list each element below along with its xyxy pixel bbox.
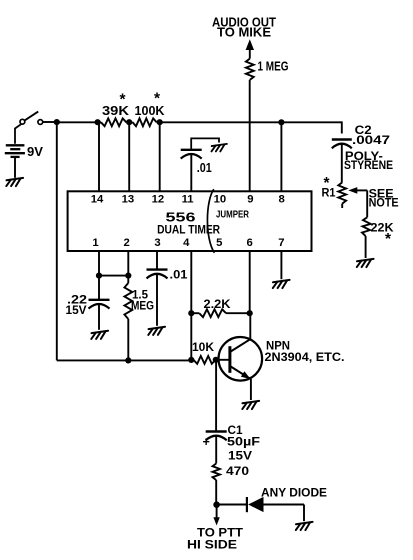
switch S1 <box>20 112 43 125</box>
wire PTT node to diode <box>217 504 247 506</box>
label 470 <box>226 464 249 478</box>
label .22 <box>67 292 87 306</box>
svg-text:1: 1 <box>92 237 98 249</box>
svg-text:8: 8 <box>278 193 284 205</box>
svg-text:6: 6 <box>247 237 253 249</box>
wire 470 to PTT node <box>215 480 217 505</box>
arrow to audio out <box>246 39 254 58</box>
junction pin8/rail <box>278 119 284 125</box>
wire emitter to ground <box>250 379 252 400</box>
wire 100K to pin8 node <box>160 121 282 123</box>
ground (.22 cap) <box>91 331 108 339</box>
pin 6 label (bottom) <box>247 237 253 249</box>
ground (pin 11 cap) <box>211 144 226 152</box>
junction bottom rail/pin4 <box>188 357 194 363</box>
resistor 100K <box>129 118 160 126</box>
transistor Q1 2N3904 <box>219 337 263 381</box>
wire pin1 to pin2 <box>99 275 128 277</box>
wire switch to battery <box>15 124 22 144</box>
junction 2.2K/pin6/collector <box>247 310 253 316</box>
resistor 470 <box>213 464 220 481</box>
ground (battery) <box>6 178 23 186</box>
wire node A to 39K <box>57 121 98 123</box>
svg-text:*: * <box>385 231 392 248</box>
svg-text:.01: .01 <box>197 161 212 175</box>
pin 3 label (bottom) <box>154 237 160 249</box>
label 1 MEG <box>258 60 289 74</box>
wire C1 to 470 <box>215 436 217 464</box>
pin 7 label (bottom) <box>278 237 284 249</box>
label JUMPER <box>216 210 249 221</box>
wire R1 wiper to 22K <box>366 190 368 217</box>
svg-text:*: * <box>154 91 161 108</box>
svg-text:STYRENE: STYRENE <box>344 158 393 172</box>
diode D1 (any diode) <box>247 497 264 512</box>
wire pin 11 to cap <box>190 154 192 191</box>
junction bottom rail/pin2 <box>125 357 131 363</box>
label HI SIDE <box>187 538 237 552</box>
wire pin 1 column <box>98 251 100 276</box>
svg-text:2N3904, ETC.: 2N3904, ETC. <box>265 350 345 364</box>
node PTT junction <box>213 501 220 508</box>
label ANY DIODE <box>261 486 327 500</box>
wire collector to 2.2K node <box>249 313 251 339</box>
label 100K * <box>135 91 165 119</box>
svg-text:R1: R1 <box>322 185 336 199</box>
label AUDIO OUT <box>212 16 276 30</box>
label POLY- <box>345 149 383 163</box>
svg-text:3: 3 <box>154 237 160 249</box>
label MEG <box>131 298 154 312</box>
wire pin 2 column <box>127 251 129 283</box>
svg-text:10K: 10K <box>192 340 214 354</box>
junction pin1 wire <box>96 273 102 279</box>
svg-text:11: 11 <box>182 193 194 205</box>
pin 12 label (top) <box>152 193 165 205</box>
pin 14 label (top) <box>91 193 104 205</box>
svg-text:.01: .01 <box>170 267 188 281</box>
label TO MIKE <box>217 25 271 39</box>
node A junction <box>54 119 60 125</box>
label 2.2K <box>204 297 231 311</box>
junction 39K/100K/pin13 <box>126 119 132 125</box>
capacitor C1 50uF <box>203 432 227 449</box>
wire C2 to R1 <box>341 144 343 183</box>
wire 10K to base <box>216 359 229 361</box>
pin 13 label (top) <box>122 193 135 205</box>
battery B1 9V <box>5 145 25 157</box>
label 556 <box>166 210 196 225</box>
wire pin8 node to C2 <box>281 121 341 133</box>
svg-text:DUAL TIMER: DUAL TIMER <box>157 223 220 237</box>
jumper wire pin10 to pin5 <box>207 189 214 253</box>
capacitor .01 (pin 11) <box>181 150 202 159</box>
wire 1 MEG to pin 9 <box>249 80 251 191</box>
svg-text:14: 14 <box>91 193 104 205</box>
label C2 <box>355 123 372 137</box>
label R1 * <box>322 175 336 199</box>
ground (diode) <box>296 522 313 530</box>
svg-text:9V: 9V <box>27 145 44 159</box>
resistor 10K <box>194 356 216 364</box>
wire left rail <box>56 122 58 360</box>
label .0047 <box>352 133 390 147</box>
op-amp/IC U1 556 dual timer outline <box>68 191 312 251</box>
label .01 (pin 3) <box>170 267 188 281</box>
svg-text:4: 4 <box>183 237 190 249</box>
resistor 22K <box>362 217 371 236</box>
junction pin14/39K <box>95 119 101 125</box>
resistor 1.5 MEG <box>124 283 132 319</box>
ground (.01 cap) <box>148 327 165 335</box>
wire PTT node to arrow <box>216 507 218 518</box>
wire pin 12 column <box>159 122 161 191</box>
wire pin 14 column <box>98 122 100 191</box>
junction pin4/2.2K <box>188 310 194 316</box>
wire diode to ground <box>263 505 304 522</box>
wire battery to ground <box>14 158 16 178</box>
capacitor .22 15V <box>89 300 110 309</box>
wire switch to node A <box>43 121 57 123</box>
label 15V (cap .22) <box>66 303 88 317</box>
resistor 1 MEG <box>246 59 254 80</box>
capacitor .01 (pin 3) <box>147 270 168 279</box>
label C1 <box>228 423 243 437</box>
resistor 2.2K <box>191 309 249 317</box>
capacitor C2 .0047 polystyrene <box>332 140 352 149</box>
wire pin 3 to .01 cap <box>156 251 158 270</box>
svg-text:*: * <box>120 92 127 109</box>
svg-text:5: 5 <box>216 237 222 249</box>
wire bottom rail <box>57 359 194 361</box>
svg-text:12: 12 <box>152 193 165 205</box>
pin 4 label (bottom) <box>183 237 190 249</box>
wire pin 7 stub <box>280 251 282 279</box>
resistor 39K <box>98 118 130 126</box>
ground (pin 7) <box>273 280 290 288</box>
pin 1 label (bottom) <box>92 237 98 249</box>
label .01 (pin 11) <box>197 161 212 175</box>
svg-text:2: 2 <box>124 237 130 249</box>
svg-text:.0047: .0047 <box>352 133 390 147</box>
svg-text:ANY DIODE: ANY DIODE <box>261 486 327 500</box>
label 50uF <box>227 434 260 448</box>
svg-text:2.2K: 2.2K <box>204 297 231 311</box>
wire pin1 node to .22 cap <box>98 276 100 300</box>
svg-text:50µF: 50µF <box>227 434 260 448</box>
ground (22K) <box>357 259 374 267</box>
svg-text:+: + <box>203 435 210 449</box>
label TO PTT <box>197 525 244 539</box>
arrow to PTT <box>213 517 219 525</box>
ground (emitter) <box>242 401 259 409</box>
wire cap to ground bracket <box>191 138 219 149</box>
label STYRENE <box>344 158 393 172</box>
pin 8 label (top) <box>278 193 284 205</box>
svg-text:MEG: MEG <box>131 298 154 312</box>
svg-text:HI SIDE: HI SIDE <box>187 538 237 552</box>
svg-text:13: 13 <box>122 193 135 205</box>
label 39K * <box>102 92 129 119</box>
label 15V (C1) <box>228 449 253 463</box>
svg-text:JUMPER: JUMPER <box>216 210 249 221</box>
svg-text:15V: 15V <box>66 303 88 317</box>
label 22K * <box>371 221 394 249</box>
svg-text:NOTE: NOTE <box>369 195 399 209</box>
label DUAL TIMER <box>157 223 220 237</box>
label 9V <box>27 145 44 159</box>
potentiometer R1 <box>338 182 367 208</box>
wire pin 4 column <box>190 251 192 360</box>
junction 100K/pin12 <box>157 119 163 125</box>
wire .22 cap to ground <box>98 304 100 330</box>
label NPN <box>266 338 290 352</box>
pin 10 label (top) <box>214 193 227 205</box>
svg-text:1 MEG: 1 MEG <box>258 60 289 74</box>
svg-text:TO MIKE: TO MIKE <box>217 25 271 39</box>
svg-text:15V: 15V <box>228 449 253 463</box>
label SEE NOTE <box>369 187 399 210</box>
svg-text:9: 9 <box>247 193 253 205</box>
pin 9 label (top) <box>247 193 253 205</box>
wire .01 cap to ground <box>156 274 158 326</box>
pin 2 label (bottom) <box>124 237 130 249</box>
svg-text:470: 470 <box>226 464 249 478</box>
node base junction <box>213 357 219 363</box>
svg-text:7: 7 <box>278 237 284 249</box>
pin 5 label (bottom) <box>216 237 222 249</box>
wire 22K to ground <box>365 236 367 258</box>
svg-text:10: 10 <box>214 193 227 205</box>
junction pin2 wire <box>125 273 131 279</box>
pin 11 label (top) <box>182 193 194 205</box>
label 2N3904, ETC. <box>265 350 345 364</box>
wire pin 8 column <box>280 122 282 191</box>
wire 1.5 MEG to bottom rail <box>127 319 129 360</box>
wire base node to C1 <box>215 360 217 432</box>
wire pin 13 column <box>128 122 130 191</box>
label 1.5 <box>132 288 148 302</box>
label 10K <box>192 340 214 354</box>
wire pin 6 column <box>249 251 251 313</box>
